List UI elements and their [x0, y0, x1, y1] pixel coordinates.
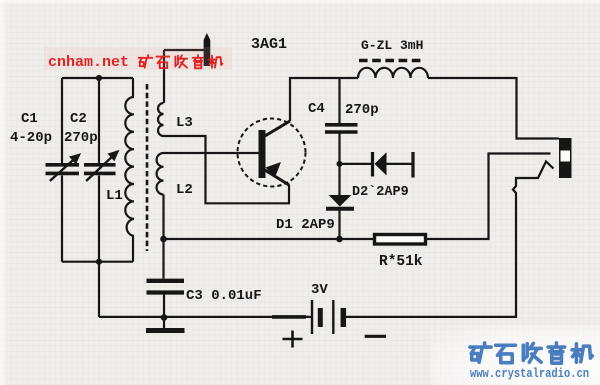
svg-text:www.crystalradio.cn: www.crystalradio.cn — [470, 367, 589, 381]
svg-text:D1 2AP9: D1 2AP9 — [276, 217, 335, 233]
svg-text:L3: L3 — [176, 115, 193, 131]
svg-text:C3 0.01uF: C3 0.01uF — [186, 288, 262, 304]
svg-text:270p: 270p — [64, 130, 98, 146]
svg-text:L1: L1 — [106, 188, 123, 204]
svg-text:cnham.net: cnham.net — [48, 54, 129, 71]
svg-text:3AG1: 3AG1 — [251, 36, 287, 53]
svg-text:3V: 3V — [311, 282, 328, 298]
svg-text:C2: C2 — [70, 111, 87, 127]
svg-text:4-20p: 4-20p — [10, 130, 52, 146]
svg-text:C1: C1 — [21, 111, 38, 127]
svg-text:G-ZL 3mH: G-ZL 3mH — [361, 38, 423, 53]
svg-text:L2: L2 — [176, 182, 193, 198]
svg-text:270p: 270p — [345, 102, 379, 118]
svg-text:D2`2AP9: D2`2AP9 — [352, 185, 409, 200]
svg-text:R*51k: R*51k — [379, 254, 423, 270]
svg-text:C4: C4 — [308, 101, 325, 117]
